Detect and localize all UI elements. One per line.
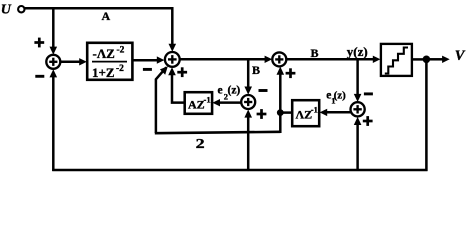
node B label (quantizer input branch) <box>252 63 260 77</box>
wire: quantizer output to junction dot JV <box>412 58 424 61</box>
plus sign S2 bottom input <box>177 67 187 77</box>
minus sign S1 bottom input <box>35 75 44 78</box>
svg-text:(z): (z) <box>334 90 347 102</box>
svg-text:-1: -1 <box>204 95 211 105</box>
svg-text:2: 2 <box>196 136 205 151</box>
H1 denominator 1+Z^-2 <box>92 64 124 80</box>
svg-text:B: B <box>311 46 319 60</box>
node B label (after S3) <box>311 46 319 60</box>
delay block D1 box <box>185 92 212 114</box>
label e2(z) <box>218 85 241 102</box>
quantizer box <box>381 44 412 76</box>
delay block D2 box <box>292 100 319 126</box>
wire: feedback rise into S1 bottom <box>50 69 58 171</box>
summer S4 <box>241 95 255 109</box>
svg-text:y(z): y(z) <box>347 44 368 59</box>
wire: loop bottom horizontal (gain path) <box>155 132 280 133</box>
svg-text:ΛZ: ΛZ <box>296 108 313 122</box>
wire: arrow to output V <box>428 56 450 63</box>
summer S1 <box>46 55 60 69</box>
wire: loop vertical + diagonal into S2 lower-left <box>156 66 168 133</box>
H1 numerator -ΛZ^-2 <box>93 46 125 62</box>
svg-text:-ΛZ: -ΛZ <box>93 46 116 61</box>
wire: feedback bottom horizontal <box>52 169 427 172</box>
wire: loop up to junction dot J2 <box>279 112 282 133</box>
wire: S2 output to summer S3 <box>180 56 273 63</box>
wire: drop from top wire to summer S2 <box>169 7 177 52</box>
junction dot JV <box>423 56 431 64</box>
node A label <box>102 9 111 23</box>
svg-text:(z): (z) <box>228 85 241 97</box>
wire: S4 output left to delay block D1 <box>212 99 241 106</box>
wire: feedback rise into S4 bottom <box>244 110 252 172</box>
svg-text:1+Z: 1+Z <box>92 65 115 80</box>
svg-text:-2: -2 <box>117 46 125 56</box>
gain 2 label <box>196 136 205 151</box>
svg-text:B: B <box>252 63 260 77</box>
wire: S1 output to filter block H1 <box>60 58 87 65</box>
D2 label ΛZ^-1 <box>296 105 318 122</box>
wire: top horizontal from U terminal to drop at x=172 <box>24 7 173 10</box>
junction dot J2 <box>277 109 284 116</box>
filter block H1 box <box>87 43 132 80</box>
D1 label AZ^-1 <box>188 95 211 112</box>
wire: S3 output to quantizer <box>286 56 380 63</box>
wire: drop from y(z) node to summer S5 <box>354 59 362 102</box>
svg-text:-2: -2 <box>116 64 124 74</box>
plus sign S3 bottom input <box>286 68 296 78</box>
svg-text:A: A <box>102 9 111 23</box>
quantizer staircase symbol <box>385 48 408 74</box>
input terminal circle <box>18 6 24 12</box>
wire: S5 output left to delay block D2 <box>320 109 351 116</box>
minus sign S4 top input <box>259 89 268 92</box>
wire: H1 output to summer S2 <box>132 56 164 63</box>
wire: feedback rise into S5 bottom <box>354 117 362 171</box>
svg-text:V: V <box>455 48 466 64</box>
summer S5 <box>351 102 365 116</box>
label e1(z) <box>326 90 346 106</box>
summer S3 <box>272 52 286 66</box>
wire: drop from top wire to summer S1 <box>50 7 58 54</box>
svg-text:e: e <box>218 85 223 97</box>
wire: D2 output left to junction dot J2 <box>280 111 292 114</box>
wire: drop from node B to summer S4 <box>244 59 252 94</box>
label y(z) <box>347 44 368 59</box>
input U label <box>1 2 12 17</box>
svg-text:U: U <box>1 2 12 17</box>
svg-text:-1: -1 <box>311 105 318 115</box>
output V label <box>455 48 466 64</box>
minus sign S5 top input <box>364 92 373 95</box>
plus sign S4 bottom input <box>257 109 267 119</box>
summer S2 <box>165 52 180 67</box>
minus sign S2 diagonal input <box>143 68 152 71</box>
plus sign S5 bottom input <box>363 116 373 126</box>
wire: D1 output left then up into S2 bottom <box>168 67 185 102</box>
H1 fraction bar <box>92 61 127 63</box>
svg-text:AZ: AZ <box>188 98 205 112</box>
plus sign S1 top input <box>34 38 44 48</box>
wire: J2 up into S3 bottom <box>277 67 285 112</box>
wire: feedback drop from JV <box>425 59 428 171</box>
